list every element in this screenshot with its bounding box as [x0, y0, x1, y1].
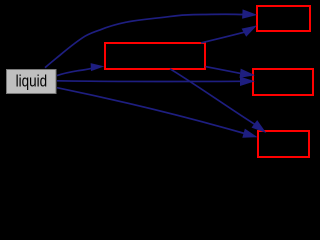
arrowhead into box4 left — [242, 129, 257, 138]
arrowhead into box2 — [91, 63, 105, 71]
wire liquid->box1 (long top curve) — [45, 14, 244, 67]
wire box2->box1 — [201, 32, 245, 43]
arrowhead into box3 upper — [240, 69, 256, 78]
arrowhead into box3 lower — [240, 77, 255, 86]
box3 right — [253, 69, 313, 95]
box1 top-right — [257, 6, 310, 31]
wire liquid->box3 (straight) — [57, 80, 241, 83]
arrowhead into box1 lower — [242, 25, 257, 36]
box4 bottom-right — [258, 131, 309, 157]
wire liquid->box2 — [57, 68, 91, 75]
arrowhead into box4 top — [252, 120, 267, 133]
box2 middle — [105, 43, 205, 69]
svg-text:liquid: liquid — [16, 71, 47, 90]
node liquid — [7, 70, 57, 94]
wire box2->box3 — [206, 67, 241, 74]
arrowhead into box1 upper — [242, 9, 257, 18]
wire liquid->box4 — [57, 88, 245, 134]
wire box2->box4 — [170, 69, 255, 125]
